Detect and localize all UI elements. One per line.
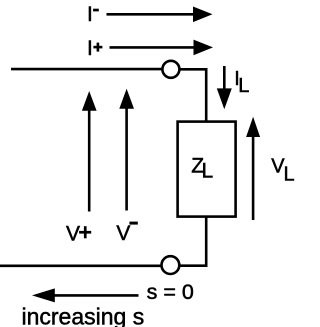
svg-text:I: I — [87, 3, 93, 26]
svg-text:V: V — [116, 222, 130, 245]
svg-text:increasing s: increasing s — [22, 304, 145, 327]
svg-text:s = 0: s = 0 — [147, 280, 194, 304]
svg-text:V: V — [66, 223, 80, 246]
svg-text:I: I — [87, 37, 93, 60]
svg-text:L: L — [284, 164, 295, 186]
svg-text:L: L — [238, 75, 249, 97]
svg-text:L: L — [202, 160, 214, 183]
